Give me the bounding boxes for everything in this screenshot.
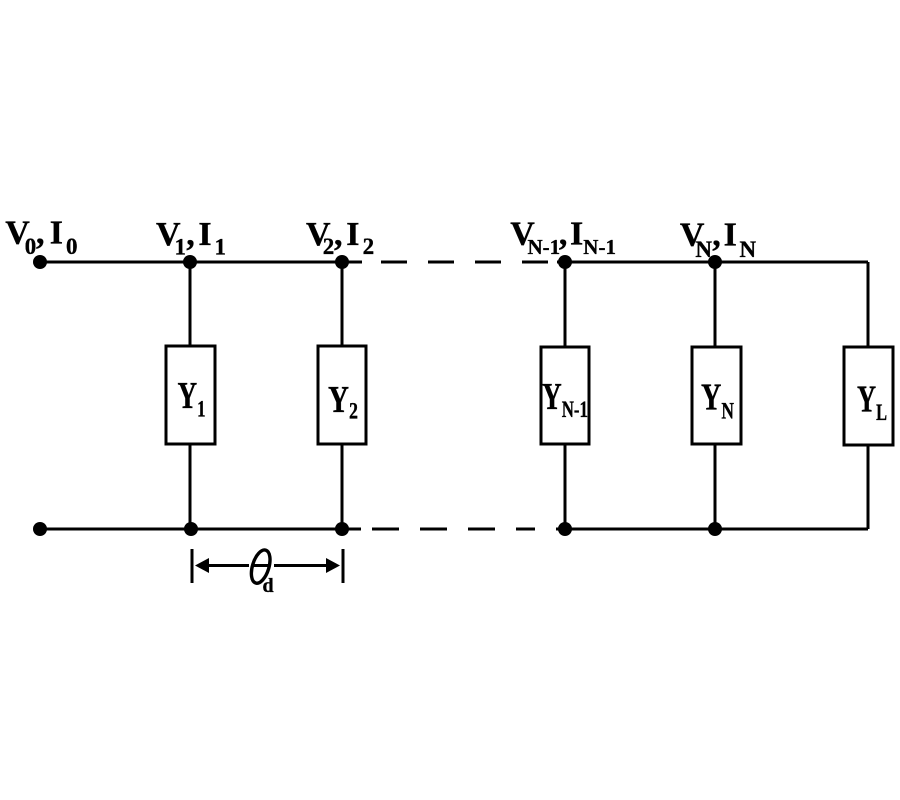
svg-text:V0,I0: V0,I0 [5,215,77,260]
svg-text:VN-1,IN-1: VN-1,IN-1 [510,216,616,260]
svg-text:V1,I1: V1,I1 [156,216,226,260]
svg-text:d: d [263,575,274,597]
svg-text:V2,I2: V2,I2 [306,216,374,259]
svg-text:VN,IN: VN,IN [680,217,757,263]
